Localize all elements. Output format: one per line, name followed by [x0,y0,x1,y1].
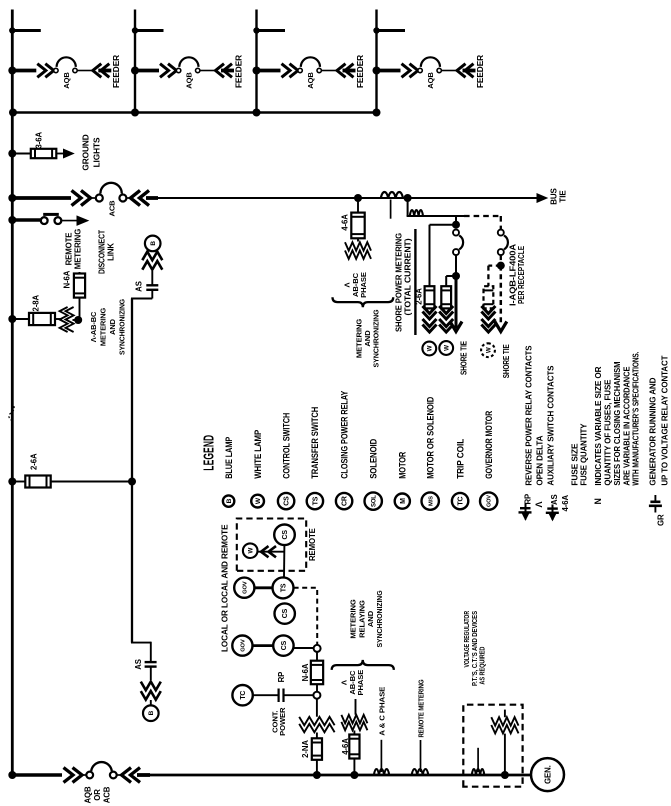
wire lamp fuse drop [51,480,132,482]
line shore metering underline [414,229,416,335]
control switch CS remote [274,525,295,546]
node 4-6A gen tap [350,771,358,779]
wire winding to node [73,319,76,321]
svg-text:M/S: M/S [428,496,434,506]
svg-text:PHASE: PHASE [359,272,368,298]
label AQB OR ACB [84,786,112,803]
wire shore tap [407,198,464,216]
svg-text:INDICATES VARIABLE SIZE OR: INDICATES VARIABLE SIZE OR [593,366,603,486]
current transformer remote metering [412,769,429,775]
arrow ground lights [64,149,74,158]
brace metering relaying [332,660,394,670]
node 2-NA tap [313,771,321,779]
svg-text:FUSE QUANTITY: FUSE QUANTITY [579,423,589,485]
fuse shore receptacle dashed [484,286,494,308]
svg-text:(TOTAL CURRENT): (TOTAL CURRENT) [403,238,412,315]
svg-text:AND: AND [366,610,375,627]
legend label MOTOR [398,451,408,479]
svg-text:AQB: AQB [185,72,194,89]
label AS left [134,659,143,670]
svg-text:ACB: ACB [108,200,117,217]
svg-text:W: W [485,347,492,353]
stub tap rail 1 [9,27,41,33]
label 4-6A gen [341,738,350,755]
legend symbol open delta [534,502,544,508]
svg-text:CS: CS [282,608,289,618]
svg-text:AS: AS [550,494,559,505]
svg-text:GOVERNOR MOTOR: GOVERNOR MOTOR [484,410,494,479]
fuse 2-6A lamp [25,476,50,488]
svg-text:DISCONNECT: DISCONNECT [98,230,107,274]
capacitor contact RP [279,689,284,703]
svg-text:Λ: Λ [534,502,544,508]
node lamp bus junction [128,478,136,486]
wire main switchboard bus [11,10,14,776]
label FEEDER 2 [234,55,244,88]
label 3-6A [35,132,44,149]
node shore tie branch [452,272,460,280]
legend symbol M/S [422,492,439,509]
label BUS TIE [550,187,568,204]
svg-text:W: W [443,345,450,351]
label VOLTAGE REGULATOR [464,611,487,686]
label METERING AND SYNCHRONIZING top [355,309,381,367]
svg-text:WHITE LAMP: WHITE LAMP [253,430,263,479]
svg-text:B: B [226,498,233,503]
svg-text:UP TO VOLTAGE RELAY CONTACT: UP TO VOLTAGE RELAY CONTACT [660,355,670,486]
wire contactor to node [455,255,457,273]
label LEGEND title [201,435,218,471]
svg-text:CS: CS [284,496,291,506]
svg-text:AS: AS [135,281,144,292]
svg-text:RELAYING: RELAYING [357,600,366,638]
wire branch up [430,225,457,287]
svg-text:TRIP COIL: TRIP COIL [455,438,465,479]
drawout contacts shore 1 [423,306,437,332]
wire remote metering tap [420,740,422,772]
label METERING RELAYING AND SYNCHRONIZING [349,590,384,647]
svg-text:W: W [255,497,262,504]
svg-text:SHORE TIE: SHORE TIE [460,341,469,375]
label 2-6A lamp fuse [30,453,39,470]
legend symbol TS [307,493,323,509]
svg-text:GROUND: GROUND [81,134,91,170]
svg-text:SHORE POWER METERING: SHORE POWER METERING [394,233,403,332]
fuse 4-6A shore [351,213,364,239]
svg-text:AQB: AQB [426,72,435,89]
node rail 4 tie [373,109,381,117]
label GROUND LIGHTS [81,134,102,170]
legend label MOTOR OR SOLENOID [426,397,436,479]
fuse N-6A remote metering [74,274,85,298]
svg-text:3-6A: 3-6A [35,132,44,149]
svg-text:AQB: AQB [62,72,71,89]
voltage regulator box [463,705,522,787]
label 4-6A shore [341,214,350,231]
svg-text:N-6A: N-6A [63,270,72,288]
circuit breaker AQB feeder 2 [131,57,234,88]
legend label N meaning [593,352,640,486]
white lamp W shore 2 [439,341,453,355]
fuse 2-6A shore metering [425,286,435,308]
legend symbol AS contacts [546,494,559,520]
legend symbol N [593,498,603,504]
label CONT POWER [270,707,287,736]
label SHORE POWER METERING [394,233,412,332]
label N-6A [63,270,72,288]
drawout contacts shore 2 [439,306,453,332]
link GOV-CS [253,644,274,647]
wire receptacle to node [500,255,502,262]
label REMOTE METERING gen [417,679,426,737]
wire bus tie [156,197,538,199]
wire receptacle corner [500,216,502,230]
label 2-NA [301,740,310,758]
svg-text:TRANSFER SWITCH: TRANSFER SWITCH [310,407,320,479]
legend symbol GR contact [649,495,666,526]
svg-text:POWER: POWER [278,707,287,736]
wire node fuse segs [316,652,318,692]
control switch CS middle [275,603,295,623]
svg-text:GOV: GOV [240,639,246,652]
white lamp W shore 1 [422,342,436,356]
svg-text:RP: RP [523,494,532,505]
wire node B up [253,694,314,696]
legend label WHITE LAMP [253,430,263,479]
node B control [313,692,320,699]
label SHORE TIE 1 [460,341,469,375]
legend label reverse power [524,345,534,485]
svg-text:GR: GR [657,514,666,526]
legend symbol GOV [480,492,497,509]
legend label CONTROL SWITCH [281,413,291,479]
svg-text:4-6A: 4-6A [561,495,570,512]
winding AB-BC shore [345,242,371,259]
svg-text:N: N [593,498,603,504]
legend label SOLENOID [369,439,379,479]
svg-text:W: W [247,548,254,554]
wire winding to label [355,699,357,715]
legend symbol CS [278,493,294,509]
wire shore dashed [464,215,501,217]
contactor shore receptacle [498,230,508,256]
current transformer bus tie [381,192,403,219]
current transformer shore metering [410,210,423,216]
svg-text:BUS: BUS [550,187,559,204]
capacitor contact AS right [146,285,158,290]
stub tap rail 3 [253,27,285,33]
label A & C PHASE [378,687,387,736]
label AB-BC PHASE gen [339,670,365,696]
node metering tap [8,315,29,323]
node lamp circuit tap [8,478,25,486]
svg-text:FEEDER: FEEDER [475,55,485,88]
svg-text:METERING: METERING [73,229,82,269]
svg-text:RP: RP [277,672,286,683]
blue lamp B left [143,705,159,721]
label FEEDER 3 [355,55,365,88]
wire winding to node B [316,699,318,717]
contacts white lamp [261,546,276,557]
legend label TRANSFER SWITCH [310,407,320,479]
svg-text:4-6A: 4-6A [341,738,350,755]
svg-text:P.T.’S, C.T.’S AND DEVICES: P.T.’S, C.T.’S AND DEVICES [472,611,479,686]
svg-text:ACB: ACB [103,786,112,803]
bus break squiggle [9,403,14,421]
wire node to fuse N-6A [79,298,81,320]
wire regulator winding [504,710,506,775]
svg-text:AS: AS [134,659,143,670]
svg-text:2-6A: 2-6A [415,288,424,305]
svg-text:TS: TS [312,496,319,505]
svg-text:CONTROL SWITCH: CONTROL SWITCH [281,413,291,479]
stub tap rail 4 [373,27,405,33]
svg-text:CS: CS [281,640,288,650]
svg-text:LEGEND: LEGEND [201,435,218,471]
wire lamp left jog [131,642,151,661]
label A-AB-BC METERING AND SYNCHRONIZING [89,299,127,355]
winding voltage regulator [491,717,518,733]
disconnect link [8,214,88,225]
generator GEN [531,758,564,791]
svg-text:AS REQUIRED: AS REQUIRED [479,647,486,685]
svg-text:METERING: METERING [99,308,108,347]
label AB-BC PHASE shore [342,272,368,298]
legend symbol RP contacts [519,494,533,520]
svg-text:N-6A: N-6A [301,663,310,681]
brace metering and synchronizing top [333,297,394,307]
wire regulator ct tap [477,748,479,772]
wire feeder rail 4 [375,10,377,113]
node A control [314,645,321,652]
wire contactor stub [455,216,457,222]
svg-text:W: W [427,345,434,351]
circuit breaker AQB feeder 4 [373,57,476,88]
svg-text:CLOSING POWER RELAY: CLOSING POWER RELAY [339,391,349,479]
svg-text:2-8A: 2-8A [32,295,41,312]
governor motor GOV upper [234,578,254,598]
legend label generator running [647,355,669,486]
svg-text:2-NA: 2-NA [301,740,310,758]
svg-text:WITH MANUFACTURER’S SPECIFICAT: WITH MANUFACTURER’S SPECIFICATIONS. [630,352,640,486]
wire 4-6A to winding [353,731,355,735]
white lamp W receptacle dashed [481,343,495,357]
legend symbol SOL [365,492,382,509]
svg-text:TS: TS [281,583,288,592]
svg-text:SHORE TIE: SHORE TIE [502,344,511,378]
wire to blue lamp left [150,700,152,705]
trip coil TC [232,685,252,705]
svg-text:LIGHTS: LIGHTS [92,137,102,167]
svg-text:SYNCHRONIZING: SYNCHRONIZING [375,590,384,647]
label N-6A control [301,663,310,681]
wire 2-NA to winding [316,733,318,739]
wire fuse to winding shore [357,238,359,241]
legend label TRIP COIL [455,438,465,479]
wire generator lead [149,774,532,777]
wire AS right [151,271,153,285]
arrow shore tie receptacle [495,322,507,332]
svg-text:MOTOR: MOTOR [398,451,408,479]
circuit breaker AQB or ACB generator [12,762,150,782]
node shore contactor [452,221,460,229]
stub tap rail 2 [132,27,164,33]
transfer switch TS [273,577,294,598]
wire feeder rail tie [12,111,376,113]
label DISCONNECT LINK [98,230,116,274]
contactor shore tie [453,230,463,256]
wire node A up [294,647,314,649]
current transformer regulator [472,769,485,775]
svg-text:FEEDER: FEEDER [111,55,121,88]
governor motor GOV lower [232,636,252,656]
legend label fuse quantity [579,423,589,485]
svg-text:B: B [150,241,157,246]
svg-text:M: M [400,498,407,504]
svg-text:BLUE LAMP: BLUE LAMP [224,437,234,479]
svg-text:TIE: TIE [559,190,568,203]
svg-text:2-6A: 2-6A [30,453,39,470]
arrow shore tie [450,322,462,332]
wire receptacle tie out [500,266,503,324]
wire lamp bus [131,299,133,643]
svg-text:SOLENOID: SOLENOID [369,439,379,479]
svg-text:LOCAL OR LOCAL AND REMOTE: LOCAL OR LOCAL AND REMOTE [220,524,229,652]
svg-text:B: B [148,710,155,715]
svg-text:SIZES FOR CLOSING MECHANISM: SIZES FOR CLOSING MECHANISM [612,362,622,486]
wire A and C phase tap [380,740,382,772]
fuse 2-NA [312,738,322,760]
svg-text:TC: TC [240,691,247,700]
svg-text:AQB: AQB [306,72,315,89]
wire fuse to winding [55,318,61,320]
svg-text:CR: CR [342,496,349,506]
wire fuse N-6A end [79,272,81,274]
svg-text:REMOTE: REMOTE [308,528,317,561]
auxiliary switch contacts right [142,252,162,270]
wire to ground lights [56,153,64,155]
legend label open delta [535,436,545,486]
label REMOTE METERING [64,229,82,269]
wire branch fuse2 [446,276,456,286]
capacitor contact AS left [145,662,157,667]
svg-text:OR: OR [93,789,102,801]
wire lamp right jog [131,290,152,299]
svg-text:FEEDER: FEEDER [355,55,365,88]
fuse N-6A control [311,661,323,685]
wire feeder rail 3 [255,10,257,113]
svg-text:AND: AND [108,318,117,334]
legend symbol B [223,495,234,506]
svg-text:GEN.: GEN. [544,765,553,784]
legend label fuse size [570,443,580,485]
svg-text:METERING: METERING [349,599,358,638]
fuse 3-6A [31,149,57,158]
white lamp W remote [243,543,258,558]
fuse shore metering 2 [441,286,451,308]
svg-text:CS: CS [282,530,289,540]
svg-text:GENERATOR RUNNING AND: GENERATOR RUNNING AND [647,378,657,486]
label FEEDER 4 [475,55,485,88]
svg-text:REVERSE POWER RELAY CONTACTS: REVERSE POWER RELAY CONTACTS [524,345,534,485]
svg-text:4-6A: 4-6A [341,214,350,231]
label REMOTE [308,528,317,561]
wire dashed TS to node A [294,588,318,645]
node regulator tap [501,771,509,779]
circuit breaker ACB bus tie [8,183,158,217]
node rail 3 tie [253,109,261,117]
svg-text:QUANTITY OF FUSES, FUSE: QUANTITY OF FUSES, FUSE [603,379,613,485]
label LOCAL OR LOCAL AND REMOTE [220,524,229,652]
wire feeder rail 2 [134,10,136,113]
remote control box [237,519,306,571]
arrow bus tie [537,194,547,203]
svg-text:REMOTE: REMOTE [64,233,73,266]
svg-text:OPEN DELTA: OPEN DELTA [535,436,545,486]
fuse 4-6A gen [349,735,359,759]
fuse 2-8A [29,313,55,325]
circuit breaker AQB feeder 3 [253,57,356,88]
node rail 2 tie [131,109,139,117]
svg-text:TC: TC [458,496,465,505]
label FEEDER 1 [111,55,121,88]
legend symbol M [395,494,410,509]
label 2-6A shore [415,288,424,305]
svg-text:A & C PHASE: A & C PHASE [378,687,387,736]
label 2-8A [32,295,41,312]
svg-text:MOTOR OR SOLENOID: MOTOR OR SOLENOID [426,397,436,479]
legend symbol TC [452,493,468,509]
svg-text:PER RECEPTACLE: PER RECEPTACLE [517,246,526,304]
wire 2-NA tap [316,760,318,775]
label SHORE TIE 2 [502,344,511,378]
legend label GOVERNOR MOTOR [484,410,494,479]
label I-AQB-LF400A PER RECEPTACLE [508,243,526,306]
wire shore tie out [455,276,458,328]
svg-text:SYNCHRONIZING: SYNCHRONIZING [372,309,381,367]
node ground lights tap [8,150,31,158]
svg-text:SYNCHRONIZING: SYNCHRONIZING [118,299,127,355]
legend symbol 4-6A [561,495,570,512]
auxiliary switch contacts left [141,682,161,700]
link GOV-TS [254,586,272,589]
svg-text:LINK: LINK [107,243,116,261]
legend label auxiliary switch [546,365,556,485]
winding A-AB-BC metering [60,307,74,332]
node 4-6A tap bus tie [354,194,362,202]
svg-text:AND: AND [363,330,372,347]
drawout contacts receptacle [481,306,495,332]
svg-text:FEEDER: FEEDER [234,55,244,88]
node A-AB-BC [74,316,82,324]
node receptacle branch [497,262,505,270]
node rail tie on bus [9,109,17,117]
control switch CS lower [273,635,293,655]
wire AB-BC winding tap gen [353,759,355,776]
svg-text:GOV: GOV [242,581,248,594]
wire receptacle fuse branch [488,266,500,287]
legend label BLUE LAMP [224,437,234,479]
wire CS to TS [283,545,285,577]
wire AS left [150,667,152,680]
svg-text:AUXILIARY SWITCH CONTACTS: AUXILIARY SWITCH CONTACTS [546,365,556,485]
node bus corner [8,771,16,779]
legend symbol W [251,495,264,508]
svg-text:REMOTE METERING: REMOTE METERING [417,679,426,737]
label RP control [277,672,286,683]
circuit breaker AQB feeder 1 [8,57,111,88]
svg-text:PHASE: PHASE [356,670,365,696]
